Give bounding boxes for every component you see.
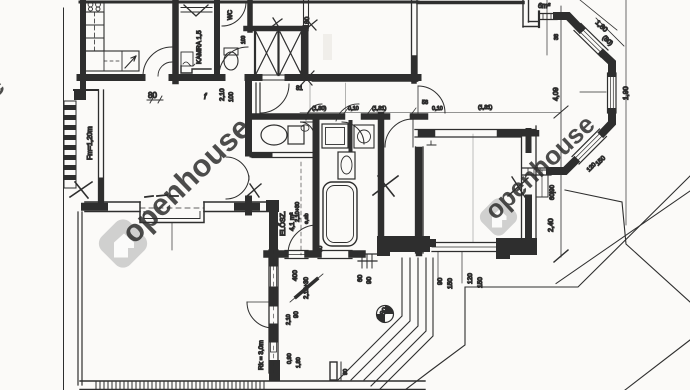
svg-text:1,90: 1,90: [623, 86, 630, 100]
svg-text:0,10: 0,10: [432, 106, 443, 112]
wall: top edge (cut off): [80, 1, 418, 4]
door leaf + arc: stair hall door: [255, 83, 257, 113]
svg-text:81: 81: [296, 86, 303, 92]
svg-text:4,09: 4,09: [553, 87, 560, 101]
post on terrace bottom: [330, 362, 337, 380]
svg-text:58: 58: [422, 100, 428, 106]
pantry bottom notch: [181, 66, 211, 73]
wall: bay elbow B: [603, 54, 612, 73]
kitchen counter bottom: [85, 51, 139, 71]
tick on left wall: [70, 182, 92, 198]
window: bay diagonal 2: [572, 129, 600, 157]
svg-text:90: 90: [437, 277, 444, 285]
dim stub below alcove: [171, 223, 173, 250]
wall: top-center room right (double): [411, 0, 413, 81]
svg-text:Fm=1,20m: Fm=1,20m: [87, 126, 94, 160]
bath shower cell: [322, 124, 348, 148]
wall: living room bottom (double): [85, 201, 140, 203]
wall: pantry/wc divider: [214, 0, 220, 77]
wall: elosz/bath divider: [313, 120, 320, 250]
watermark logo 1: [95, 215, 152, 272]
window: small outside bedroom right wall: [536, 170, 548, 197]
wall: kitchen right: [172, 0, 179, 81]
wall: wc right top: [247, 0, 253, 30]
window: bay bottom horizontal to bedroom: [522, 167, 551, 169]
alcove bump: [140, 202, 204, 223]
wall: living bottom continues: [204, 201, 269, 203]
dim extension line under bedroom window: [437, 252, 439, 283]
svg-text:150: 150: [447, 278, 454, 289]
svg-text:2,10+30: 2,10+30: [304, 276, 310, 299]
window panes terrace wall: [271, 264, 277, 289]
watermark logo 2: [477, 195, 521, 239]
wall: terrace bottom with railing ticks: [80, 380, 425, 382]
wall: big room NE corner (L): [522, 0, 524, 27]
dimension diagonals top right: [580, 0, 617, 30]
kitchen stove: [85, 1, 104, 12]
patio inner edge from bay: [565, 190, 690, 302]
north/section symbol: [377, 306, 394, 323]
wall: stair shaft top: [246, 26, 306, 32]
wall: kitchen bottom with door opening: [80, 74, 142, 81]
door arc: big room door from corridor: [418, 86, 445, 113]
dimension line: corridor: [300, 112, 560, 114]
svg-text:0,90: 0,90: [287, 353, 293, 364]
svg-text:ELŐSZ.: ELŐSZ.: [278, 211, 287, 236]
svg-text:(1,80): (1,80): [312, 106, 327, 112]
dimension line right edge: [625, 0, 627, 225]
wall: bedroom top (double): [415, 129, 536, 131]
svg-text:60|90: 60|90: [550, 184, 556, 200]
wc toilet: [224, 52, 238, 70]
wall: bath block bottom black corner: [377, 236, 430, 252]
hatched strip outside left wall: [64, 101, 76, 188]
dim line inside bedroom: [472, 134, 474, 242]
svg-text:90: 90: [294, 311, 300, 318]
extension line corridor: [345, 83, 347, 112]
svg-text:150: 150: [477, 277, 484, 288]
door arc: kitchen door: [143, 47, 172, 76]
wall: bay elbow C: [603, 112, 612, 133]
wall: step notch top-left: [74, 90, 86, 100]
svg-text:KAMRA 1,5: KAMRA 1,5: [196, 30, 203, 64]
wc room (mid) toilet: [261, 125, 287, 145]
outdoor steps (verticals bending SW): [338, 258, 402, 380]
window: below bath: [358, 253, 377, 255]
window: bay vertical: [607, 73, 609, 113]
wall: bedroom right (double with black fills): [521, 130, 523, 250]
svg-text:90: 90: [366, 276, 373, 284]
tick on wall: [300, 71, 314, 85]
wall: corridor top (south of kitchen block), with wc door gap: [172, 74, 222, 81]
svg-text:2,10+30: 2,10+30: [295, 202, 301, 222]
svg-text:0,10: 0,10: [348, 106, 359, 112]
stair flight top (to basement): [181, 2, 212, 4]
tick: opening marker above stairs: [270, 18, 282, 29]
wall: bath inner divider: [349, 122, 353, 150]
svg-text:90: 90: [343, 369, 349, 375]
wall: terrace right upper extension: [269, 212, 278, 250]
small mark below top wall: [427, 141, 436, 145]
svg-text:100: 100: [229, 91, 235, 102]
svg-text:6m²: 6m²: [538, 3, 551, 10]
wall: bedroom left (double, door gap top): [415, 147, 417, 253]
patio outer corner bottom right: [625, 340, 690, 390]
svg-text:60: 60: [357, 274, 364, 282]
wc door arc bottom: [219, 47, 248, 76]
dimension line: vertical 4,09 / 2,40: [560, 6, 562, 257]
wall: bay elbow D: [550, 162, 575, 172]
patio outline middle: [405, 176, 690, 390]
wall: bedroom bottom with window: [415, 239, 432, 247]
section mark: bold diagonal at entrance: [296, 279, 317, 297]
black corner living wall right end: [266, 200, 279, 212]
svg-text:120: 120: [467, 273, 474, 284]
svg-text:Rk = 3,0m: Rk = 3,0m: [258, 340, 265, 370]
bathtub: [323, 182, 357, 246]
wall: terrace left (double): [77, 212, 79, 385]
washer cell: [354, 125, 374, 148]
wall: kitchen left: [80, 0, 86, 92]
tick on corridor wall: [373, 176, 398, 196]
wall: living room left (double): [98, 90, 100, 203]
tick X top of wall: [306, 20, 317, 30]
wall: bay elbow A: [557, 16, 580, 29]
window: bedroom bottom: [432, 242, 496, 244]
svg-text:30: 30: [318, 246, 324, 252]
svg-text:100: 100: [241, 35, 247, 44]
tick on bedroom right wall: [508, 177, 528, 197]
wc room door arc top: [222, 2, 246, 26]
wall: wc room bottom (double): [252, 152, 312, 154]
svg-text:80: 80: [304, 16, 311, 24]
door arc: bath door: [342, 122, 364, 144]
wall: stair shaft right / top-center room left: [303, 28, 309, 77]
wall: terrace right with windows and door: [268, 250, 270, 373]
svg-text:(1,81): (1,81): [478, 105, 493, 111]
staircase shaft with X bracing: [254, 31, 256, 75]
wall: bath/corridor divider: [378, 115, 385, 240]
door arc: elosz inner door: [288, 225, 317, 254]
door arc: terrace door: [247, 302, 273, 328]
kitchen cabinet column: [85, 12, 104, 51]
bath sink: [338, 152, 355, 179]
svg-text:2,10: 2,10: [219, 88, 226, 101]
thin floor line under corridor wall: [312, 81, 418, 83]
door arcs: living french doors: [226, 157, 249, 180]
wall: big room top: [418, 1, 523, 5]
property boundary line left: [63, 8, 65, 390]
door arcs swinging into corridor: [306, 104, 322, 120]
svg-text:e,eb: e,eb: [304, 213, 310, 224]
wall: bath block top: [250, 113, 342, 120]
svg-text:2,40: 2,40: [548, 218, 555, 232]
marks on alcove: [145, 195, 178, 197]
svg-text:(1,81): (1,81): [372, 106, 387, 112]
svg-text:38: 38: [554, 34, 560, 40]
dimension line into bay: [580, 91, 606, 93]
patio second diagonal: [556, 191, 690, 284]
window: bay diagonal 1: [581, 24, 608, 51]
svg-text:1,80: 1,80: [296, 357, 302, 368]
pantry shelf: [181, 52, 193, 66]
window: bay top horizontal: [539, 13, 557, 15]
svg-text:2,10: 2,10: [286, 314, 292, 325]
arrow in counter: [125, 56, 136, 68]
wall: elosz bottom with windows: [267, 250, 285, 258]
svg-text:WC: WC: [228, 9, 234, 20]
corner sink wc: [300, 122, 314, 136]
svg-text:400: 400: [292, 270, 299, 281]
tick X on living wall door: [247, 184, 261, 197]
door arc: bedroom door: [385, 119, 413, 147]
wall: living room right (black, with french door gap): [245, 81, 252, 153]
